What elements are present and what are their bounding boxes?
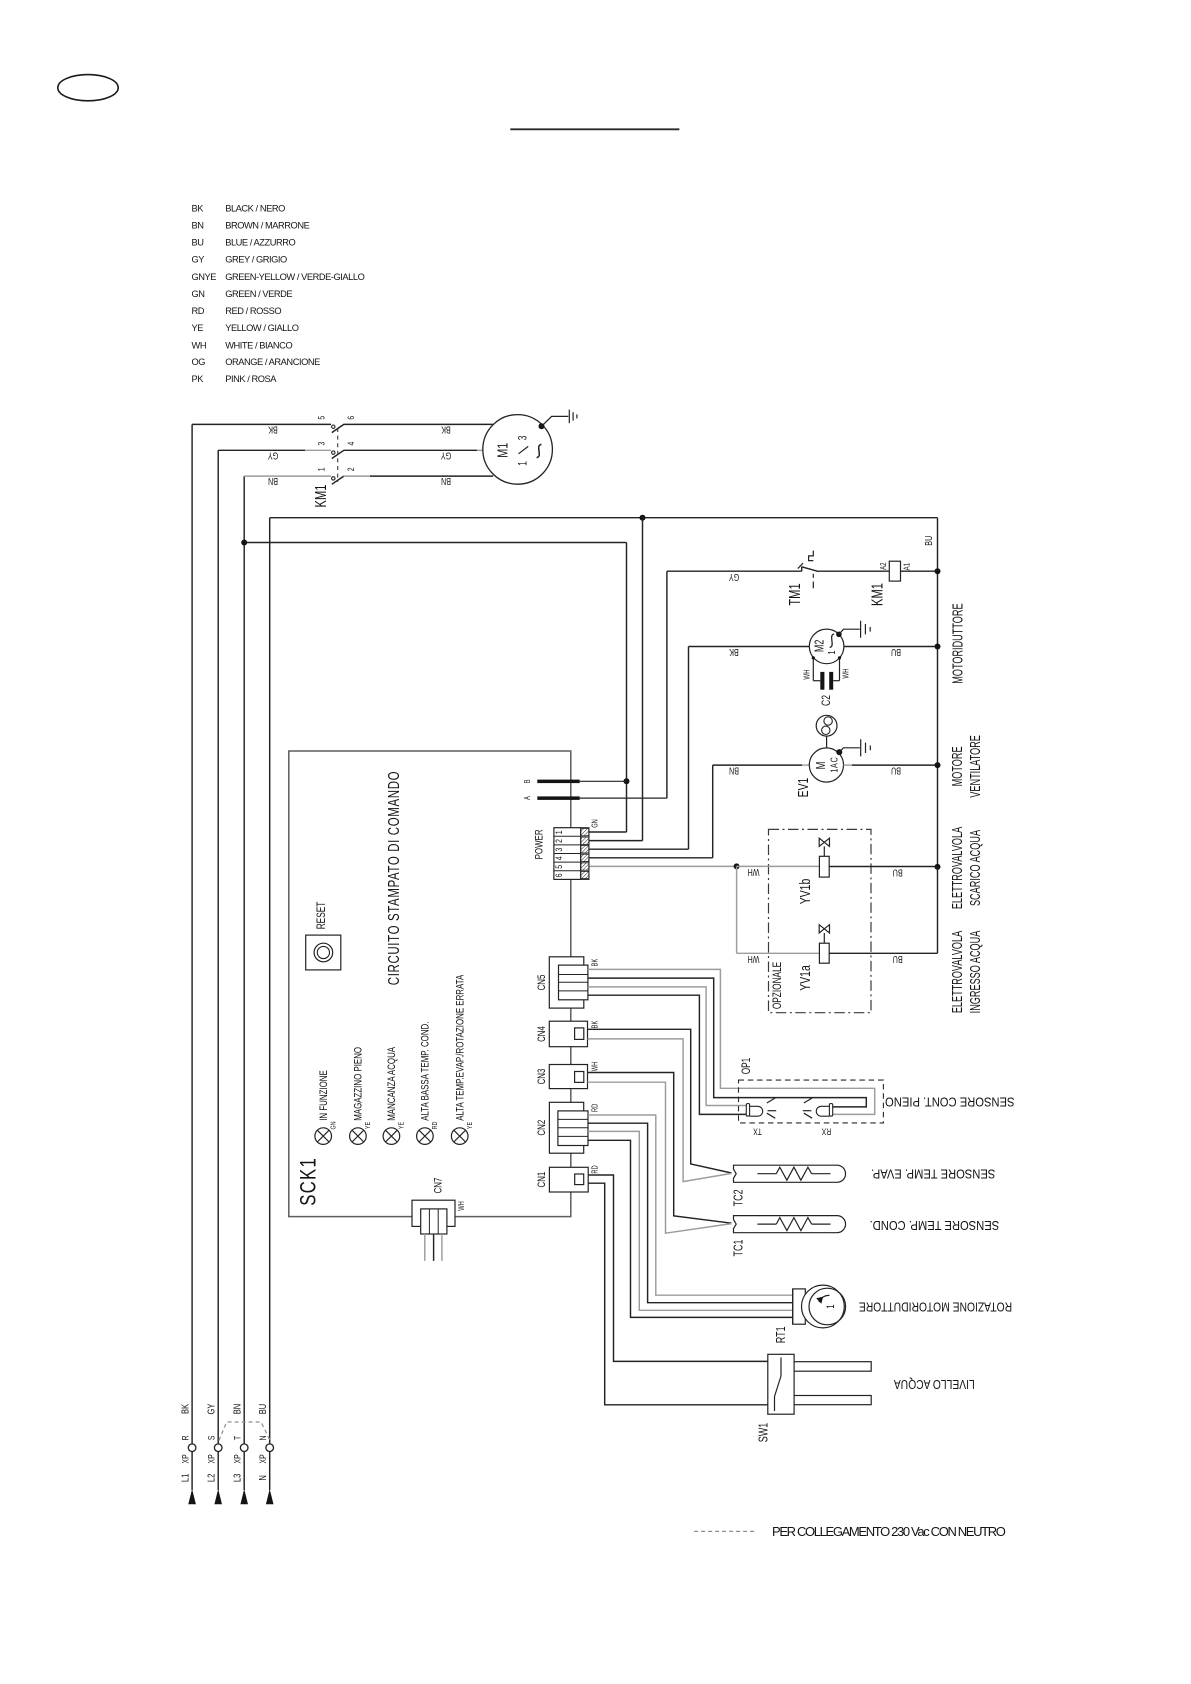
svg-text:OP1: OP1 xyxy=(741,1057,754,1074)
svg-text:MOTORE: MOTORE xyxy=(949,746,966,786)
svg-text:5: 5 xyxy=(316,415,326,419)
wire CN4-2 to TC2 xyxy=(588,1039,732,1182)
svg-text:ALTA BASSA TEMP. COND.: ALTA BASSA TEMP. COND. xyxy=(420,1022,433,1121)
svg-text:5: 5 xyxy=(554,865,564,869)
terminal XP L2 xyxy=(206,1404,222,1505)
svg-text:CN7: CN7 xyxy=(432,1178,445,1194)
svg-text:GREEN / VERDE: GREEN / VERDE xyxy=(225,289,292,299)
svg-text:BN: BN xyxy=(232,1404,243,1414)
svg-text:2: 2 xyxy=(554,839,564,843)
logo ellipse xyxy=(58,75,118,101)
wire CN5-1 to OP1 RX outer xyxy=(588,969,875,1114)
wire CN1-1 to SW1 xyxy=(588,1175,768,1361)
PCB board SCK1 outline xyxy=(289,751,571,1217)
fan symbol xyxy=(816,715,837,748)
svg-text:BK: BK xyxy=(192,203,205,213)
contactor KM1 pole 5-6 xyxy=(192,415,493,432)
terminal XP N xyxy=(257,1404,273,1505)
connector CN2 xyxy=(536,1102,600,1153)
svg-text:BN: BN xyxy=(268,476,278,487)
wire CN2-3 to RT1 xyxy=(588,1131,793,1310)
contactor coil KM1 xyxy=(869,561,912,606)
svg-text:MANCANZA ACQUA: MANCANZA ACQUA xyxy=(386,1046,399,1120)
terminal block POWER xyxy=(533,819,599,879)
svg-text:A1: A1 xyxy=(901,563,911,570)
svg-text:RD: RD xyxy=(192,306,205,316)
svg-text:BK: BK xyxy=(441,424,451,435)
LED MAGAZZINO PIENO xyxy=(350,1047,373,1144)
ground at M2 xyxy=(839,621,870,638)
svg-text:BU: BU xyxy=(192,238,204,248)
colour code legend xyxy=(192,203,365,384)
svg-text:GREEN-YELLOW / VERDE-GIALLO: GREEN-YELLOW / VERDE-GIALLO xyxy=(225,272,364,282)
wire WH drop to YV1a xyxy=(736,866,738,953)
ground at M1 xyxy=(542,410,577,427)
node BU top bus xyxy=(270,517,938,519)
svg-text:IN FUNZIONE: IN FUNZIONE xyxy=(318,1070,331,1121)
connector CN4 xyxy=(536,1020,600,1046)
ground at EV1 xyxy=(839,739,870,756)
svg-text:YE: YE xyxy=(398,1121,406,1129)
LED ALTA BASSA TEMP COND xyxy=(417,1022,440,1145)
svg-text:MOTORIDUTTORE: MOTORIDUTTORE xyxy=(949,603,966,683)
svg-text:XP: XP xyxy=(207,1454,217,1464)
svg-text:A2: A2 xyxy=(878,562,888,569)
svg-text:OPZIONALE: OPZIONALE xyxy=(772,962,785,1010)
svg-text:M2: M2 xyxy=(813,640,827,652)
svg-text:OG: OG xyxy=(192,357,206,367)
wire GY to TM1 xyxy=(667,570,802,572)
fan motor EV1 xyxy=(795,748,843,797)
svg-text:3: 3 xyxy=(554,847,564,851)
svg-text:CIRCUITO STAMPATO DI COMANDO: CIRCUITO STAMPATO DI COMANDO xyxy=(384,771,402,985)
fuse bar B xyxy=(537,780,579,784)
svg-text:BLUE / AZZURRO: BLUE / AZZURRO xyxy=(225,238,295,248)
svg-text:KM1: KM1 xyxy=(869,583,886,606)
svg-text:R: R xyxy=(181,1435,191,1440)
wire BK riser from pin3 xyxy=(688,647,690,850)
LED ALTA TEMP EVAP ROTAZIONE ERRATA xyxy=(451,974,474,1144)
svg-text:M: M xyxy=(814,762,828,770)
svg-text:BU: BU xyxy=(257,1404,268,1414)
svg-text:RD: RD xyxy=(592,1165,600,1173)
svg-text:RD: RD xyxy=(592,1104,600,1112)
svg-text:BU: BU xyxy=(893,867,903,878)
svg-text:YV1a: YV1a xyxy=(797,964,813,990)
node BN branch to pin1 xyxy=(244,542,626,544)
capacitor C2 xyxy=(802,656,851,706)
terminal XP L1 xyxy=(179,1404,195,1504)
svg-text:CN2: CN2 xyxy=(536,1120,549,1136)
svg-text:CN1: CN1 xyxy=(536,1172,549,1188)
wire pin4 xyxy=(589,857,713,859)
wire L1 riser BK xyxy=(191,424,193,1490)
temp sensor TC2 xyxy=(732,1165,845,1206)
title underline xyxy=(510,128,679,130)
rotation sensor RT1 xyxy=(774,1285,845,1343)
svg-text:CN5: CN5 xyxy=(536,975,549,991)
svg-text:ROTAZIONE MOTORIDUTTORE: ROTAZIONE MOTORIDUTTORE xyxy=(859,1299,1012,1312)
svg-text:GY: GY xyxy=(268,450,279,461)
svg-text:ELETTROVALVOLA: ELETTROVALVOLA xyxy=(949,826,966,909)
svg-text:RX: RX xyxy=(821,1126,831,1136)
svg-text:YE: YE xyxy=(466,1121,474,1129)
svg-text:LIVELLO ACQUA: LIVELLO ACQUA xyxy=(894,1377,975,1390)
terminal XP L3 xyxy=(232,1404,248,1505)
svg-text:BU: BU xyxy=(891,647,901,658)
svg-text:PINK / ROSA: PINK / ROSA xyxy=(225,374,277,384)
svg-text:WH: WH xyxy=(748,867,760,878)
level switch SW1 xyxy=(757,1354,871,1442)
pushbutton RESET xyxy=(306,902,341,970)
wire CN2-1 to RT1 xyxy=(588,1115,793,1295)
svg-text:TX: TX xyxy=(753,1126,762,1136)
LED IN FUNZIONE xyxy=(315,1070,338,1144)
svg-text:BK: BK xyxy=(592,958,600,966)
legend dashed sample xyxy=(694,1530,755,1532)
svg-text:TC2: TC2 xyxy=(732,1189,746,1206)
connector CN1 xyxy=(536,1165,600,1192)
svg-text:RED / ROSSO: RED / ROSSO xyxy=(225,306,281,316)
svg-text:BROWN / MARRONE: BROWN / MARRONE xyxy=(225,221,309,231)
svg-text:BN: BN xyxy=(192,221,204,231)
svg-text:SCK1: SCK1 xyxy=(296,1157,321,1206)
svg-text:1: 1 xyxy=(825,1304,838,1308)
svg-text:WHITE / BIANCO: WHITE / BIANCO xyxy=(225,340,292,350)
connector CN7 xyxy=(412,1178,466,1261)
LED RX xyxy=(803,1098,833,1137)
svg-text:L1: L1 xyxy=(179,1474,190,1482)
wire WH from pin5 xyxy=(589,865,737,867)
svg-text:BN: BN xyxy=(729,765,739,776)
right vertical bus xyxy=(937,518,939,867)
svg-text:WH: WH xyxy=(192,340,207,350)
svg-text:BK: BK xyxy=(729,647,739,658)
svg-text:RESET: RESET xyxy=(316,902,329,930)
svg-text:YE: YE xyxy=(364,1121,372,1129)
svg-text:GY: GY xyxy=(441,450,452,461)
svg-text:GREY / GRIGIO: GREY / GRIGIO xyxy=(225,255,287,265)
svg-text:SENSORE TEMP. COND.: SENSORE TEMP. COND. xyxy=(870,1218,1000,1233)
svg-text:WH: WH xyxy=(802,669,812,679)
connector CN3 xyxy=(536,1062,600,1089)
svg-text:GNYE: GNYE xyxy=(192,272,217,282)
motor M1 xyxy=(483,415,553,485)
svg-text:BU: BU xyxy=(891,765,901,776)
svg-text:L2: L2 xyxy=(206,1474,217,1482)
svg-text:PER COLLEGAMENTO 230 Vac CON N: PER COLLEGAMENTO 230 Vac CON NEUTRO xyxy=(772,1524,1006,1539)
svg-text:4: 4 xyxy=(554,856,564,860)
svg-text:VENTILATORE: VENTILATORE xyxy=(967,735,984,798)
svg-text:YELLOW / GIALLO: YELLOW / GIALLO xyxy=(225,323,299,333)
svg-text:SW1: SW1 xyxy=(757,1423,771,1442)
svg-text:POWER: POWER xyxy=(533,829,546,859)
svg-text:4: 4 xyxy=(346,441,356,445)
svg-text:GY: GY xyxy=(192,255,205,265)
wire BN riser from pin4 xyxy=(712,765,714,858)
contactor KM1 pole 1-2 xyxy=(244,467,493,484)
svg-text:WH: WH xyxy=(592,1062,600,1072)
LED MANCANZA ACQUA xyxy=(383,1046,406,1144)
svg-text:N: N xyxy=(257,1475,268,1480)
junction on M1 circle xyxy=(539,423,545,429)
svg-text:GY: GY xyxy=(729,572,740,583)
svg-text:ORANGE / ARANCIONE: ORANGE / ARANCIONE xyxy=(225,357,320,367)
wire CN4-1 to TC2 xyxy=(588,1029,732,1173)
wire CN1-2 to SW1 xyxy=(588,1183,768,1405)
thermal contact TM1 xyxy=(786,551,818,606)
connector CN5 xyxy=(536,957,600,1008)
svg-text:SENSORE TEMP. EVAP.: SENSORE TEMP. EVAP. xyxy=(871,1167,995,1182)
svg-text:1: 1 xyxy=(554,830,564,834)
svg-text:6: 6 xyxy=(554,873,564,877)
wire CN2-4 to RT1 xyxy=(588,1140,793,1317)
fuse bar A xyxy=(537,796,579,800)
dashed 230Vac bypass link xyxy=(219,1422,270,1441)
svg-text:S: S xyxy=(207,1435,217,1440)
svg-text:1: 1 xyxy=(517,461,530,466)
svg-text:WH: WH xyxy=(840,668,850,678)
motoriduttore M2 xyxy=(809,629,844,664)
svg-text:A: A xyxy=(524,796,532,800)
svg-text:XP: XP xyxy=(233,1454,243,1464)
svg-text:RD: RD xyxy=(431,1121,439,1129)
svg-text:6: 6 xyxy=(346,415,356,419)
solenoid valve YV1b xyxy=(797,838,829,904)
svg-text:PK: PK xyxy=(192,374,205,384)
wire BN to EV1 xyxy=(713,764,802,766)
wire L2 riser GY xyxy=(217,450,219,1490)
svg-text:MAGAZZINO PIENO: MAGAZZINO PIENO xyxy=(353,1047,366,1121)
solenoid valve YV1a xyxy=(797,925,829,991)
svg-text:2: 2 xyxy=(346,467,356,471)
svg-text:KM1: KM1 xyxy=(312,485,329,508)
wire CN5-3 to OP1 TX top xyxy=(588,987,746,1106)
optical sensor OP1 box xyxy=(739,1080,884,1123)
svg-text:XP: XP xyxy=(181,1454,191,1464)
wire L3 riser BN xyxy=(243,476,245,1490)
svg-text:C2: C2 xyxy=(821,695,834,706)
svg-text:EV1: EV1 xyxy=(795,778,811,798)
wire CN2-2 to RT1 xyxy=(588,1123,793,1303)
box OPZIONALE xyxy=(769,829,872,1012)
contactor KM1 pole 3-4 xyxy=(218,441,483,458)
KM1 mechanical link dashes xyxy=(337,428,339,482)
wire pin2 riser xyxy=(589,840,643,842)
svg-text:ALTA TEMP.EVAP./ROTAZIONE ERRA: ALTA TEMP.EVAP./ROTAZIONE ERRATA xyxy=(454,974,467,1121)
svg-text:1: 1 xyxy=(316,467,326,471)
wire pin3 xyxy=(589,848,689,850)
svg-text:T: T xyxy=(233,1436,243,1440)
svg-text:RT1: RT1 xyxy=(774,1326,788,1343)
wire CN3-2 to TC1 xyxy=(588,1082,732,1233)
svg-text:B: B xyxy=(524,779,532,783)
svg-text:SCARICO ACQUA: SCARICO ACQUA xyxy=(967,829,984,906)
svg-text:BK: BK xyxy=(179,1404,190,1414)
wire BK to M2 xyxy=(689,646,810,648)
svg-text:1: 1 xyxy=(826,650,837,654)
svg-text:YE: YE xyxy=(192,323,204,333)
svg-text:3: 3 xyxy=(517,435,530,440)
svg-text:3: 3 xyxy=(316,441,326,445)
svg-text:SENSORE CONT. PIENO: SENSORE CONT. PIENO xyxy=(885,1094,1014,1109)
svg-text:BU: BU xyxy=(923,536,934,546)
svg-text:GN: GN xyxy=(330,1121,338,1129)
svg-text:1AC: 1AC xyxy=(828,757,839,773)
svg-text:XP: XP xyxy=(258,1454,268,1464)
svg-text:BK: BK xyxy=(268,424,278,435)
svg-text:GN: GN xyxy=(192,289,205,299)
svg-text:TC1: TC1 xyxy=(732,1240,746,1257)
svg-text:BLACK / NERO: BLACK / NERO xyxy=(225,203,285,213)
svg-text:L3: L3 xyxy=(232,1474,243,1482)
svg-text:WH: WH xyxy=(748,954,760,965)
temp sensor TC1 xyxy=(732,1216,845,1257)
svg-text:N: N xyxy=(258,1435,268,1440)
wire CN3-1 to TC1 xyxy=(588,1073,732,1224)
svg-text:BN: BN xyxy=(441,476,451,487)
wire GY riser from A bar xyxy=(666,571,668,798)
svg-text:CN4: CN4 xyxy=(536,1026,549,1042)
svg-text:YV1b: YV1b xyxy=(797,879,813,905)
svg-text:ELETTROVALVOLA: ELETTROVALVOLA xyxy=(949,930,966,1013)
wire CN5-2 to OP1 RX inner xyxy=(588,978,866,1107)
svg-text:WH: WH xyxy=(458,1201,466,1211)
svg-text:CN3: CN3 xyxy=(536,1069,549,1085)
svg-text:GN: GN xyxy=(592,819,600,828)
svg-text:BU: BU xyxy=(893,954,903,965)
wire N riser BU xyxy=(269,518,271,1490)
wire CN5-4 to OP1 TX bottom xyxy=(588,995,746,1114)
LED TX xyxy=(746,1098,776,1137)
svg-text:M1: M1 xyxy=(494,443,511,458)
svg-text:GY: GY xyxy=(206,1404,217,1415)
svg-text:INGRESSO ACQUA: INGRESSO ACQUA xyxy=(967,930,984,1013)
svg-text:TM1: TM1 xyxy=(786,583,803,605)
svg-text:BK: BK xyxy=(592,1020,600,1028)
